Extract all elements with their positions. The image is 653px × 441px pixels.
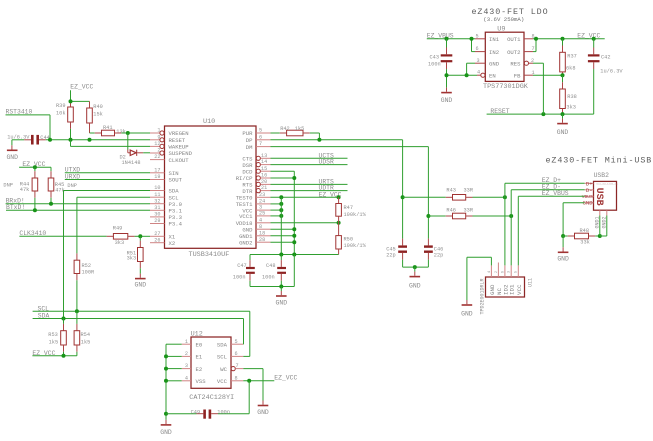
node EZ_VCC pullup label bbox=[32, 350, 77, 358]
ground under C43 bbox=[441, 93, 453, 105]
node UDTR label bbox=[271, 185, 348, 192]
svg-text:FB: FB bbox=[514, 72, 521, 79]
capacitor C48 100n bbox=[262, 255, 286, 287]
svg-text:GND2: GND2 bbox=[239, 239, 252, 246]
svg-text:30: 30 bbox=[154, 212, 160, 218]
ground under R38 bbox=[557, 124, 569, 137]
resistor R47 100k/1% bbox=[336, 197, 367, 223]
node URTS label bbox=[271, 179, 348, 186]
node EZ_VBUS label at USB bbox=[518, 190, 584, 265]
resistor R42 1k5 bbox=[271, 126, 320, 140]
wire DCD to gnd rail bbox=[271, 171, 295, 254]
svg-text:33R: 33R bbox=[464, 188, 474, 194]
resistor R48 33k bbox=[563, 228, 602, 245]
svg-text:100n: 100n bbox=[217, 409, 230, 415]
node SCL label bbox=[33, 305, 250, 313]
svg-text:GND: GND bbox=[557, 256, 569, 263]
svg-text:ID1: ID1 bbox=[509, 284, 516, 295]
resistor R49 3k3 bbox=[113, 226, 150, 247]
svg-text:GND: GND bbox=[441, 97, 453, 104]
svg-text:15: 15 bbox=[261, 166, 267, 172]
svg-text:P3.4: P3.4 bbox=[169, 221, 183, 228]
ground under U12 rail bbox=[160, 425, 172, 436]
node URXD label bbox=[65, 173, 150, 180]
resistor R44 47k DNP bbox=[3, 167, 37, 210]
svg-text:R39: R39 bbox=[56, 103, 66, 109]
wire OUT2 tie bbox=[533, 37, 538, 52]
node EZ_VCC top-left label bbox=[70, 84, 93, 102]
svg-text:IN2: IN2 bbox=[489, 49, 499, 56]
resistor R40 15k bbox=[87, 104, 103, 133]
svg-text:DNP: DNP bbox=[67, 183, 77, 189]
svg-text:SOUT: SOUT bbox=[169, 177, 183, 184]
svg-text:USB2: USB2 bbox=[594, 172, 610, 179]
svg-text:6: 6 bbox=[235, 351, 238, 357]
svg-text:GND: GND bbox=[409, 282, 421, 289]
wire WAKEUP tie to RESET bbox=[71, 140, 151, 147]
svg-text:GND: GND bbox=[276, 300, 288, 307]
svg-text:32: 32 bbox=[154, 198, 160, 204]
svg-text:DM: DM bbox=[246, 144, 253, 151]
svg-text:U9: U9 bbox=[497, 25, 505, 33]
capacitor C45 22p bbox=[386, 245, 407, 267]
IC U12 CAT24C128YI EEPROM bbox=[189, 331, 234, 402]
svg-text:26: 26 bbox=[154, 237, 160, 243]
wire USB shield gnds bbox=[600, 216, 607, 237]
svg-text:VSS: VSS bbox=[196, 378, 207, 385]
svg-text:29: 29 bbox=[154, 218, 160, 224]
svg-text:3k3: 3k3 bbox=[115, 240, 125, 246]
svg-text:6: 6 bbox=[476, 46, 479, 52]
wire C45 C46 bottoms bbox=[403, 265, 429, 276]
svg-text:R53: R53 bbox=[48, 332, 58, 338]
node RESET label bbox=[487, 63, 594, 123]
svg-text:5: 5 bbox=[476, 33, 479, 39]
U9 pins bbox=[475, 33, 535, 79]
svg-text:CAT24C128YI: CAT24C128YI bbox=[189, 394, 234, 402]
svg-text:CLKOUT: CLKOUT bbox=[169, 157, 190, 164]
wire IN2 tie bbox=[470, 37, 476, 52]
svg-text:18: 18 bbox=[259, 230, 265, 236]
IC U10 TUSB3410UF bbox=[165, 118, 257, 259]
svg-text:15k: 15k bbox=[93, 112, 103, 118]
wire DM net to C46 bbox=[271, 147, 431, 246]
svg-text:14: 14 bbox=[261, 159, 267, 165]
capacitor C46 22p bbox=[424, 245, 443, 267]
svg-text:7: 7 bbox=[236, 363, 239, 369]
svg-text:3: 3 bbox=[185, 363, 188, 369]
svg-text:EN: EN bbox=[489, 72, 496, 79]
svg-text:R46: R46 bbox=[446, 208, 456, 214]
svg-text:6k8: 6k8 bbox=[566, 65, 576, 71]
svg-text:SCL: SCL bbox=[217, 354, 227, 361]
svg-text:13: 13 bbox=[261, 153, 267, 159]
wire WC to gnd bbox=[243, 369, 263, 405]
svg-text:16: 16 bbox=[261, 173, 267, 179]
svg-text:19: 19 bbox=[154, 174, 160, 180]
resistor R50 100k/1% bbox=[336, 223, 367, 255]
node UTXD label bbox=[65, 167, 150, 174]
svg-text:C47: C47 bbox=[237, 263, 247, 269]
svg-text:IN1: IN1 bbox=[489, 36, 500, 43]
svg-text:22: 22 bbox=[154, 154, 160, 160]
svg-text:12: 12 bbox=[154, 141, 160, 147]
node BTxD! label bbox=[6, 204, 150, 212]
svg-text:GND: GND bbox=[6, 154, 18, 161]
resistor R53 1k5 bbox=[48, 319, 66, 356]
svg-text:RES: RES bbox=[510, 60, 521, 67]
ground under R48 bbox=[557, 236, 569, 263]
svg-text:R49: R49 bbox=[113, 226, 123, 232]
wire U12 left gnd rail bbox=[164, 344, 182, 424]
svg-text:R52: R52 bbox=[82, 263, 92, 269]
wire GND pins to rail bbox=[271, 227, 297, 244]
ground under C44 bbox=[6, 150, 18, 161]
svg-text:TPD2E001DRLR: TPD2E001DRLR bbox=[480, 278, 486, 314]
svg-text:USB: USB bbox=[593, 188, 604, 206]
connector USB2 bbox=[593, 172, 618, 210]
svg-text:R40: R40 bbox=[93, 104, 103, 110]
node RST3410 label bbox=[6, 109, 51, 140]
svg-text:U11: U11 bbox=[527, 278, 533, 287]
resistor R54 1k5 bbox=[74, 311, 90, 356]
svg-text:100k/1%: 100k/1% bbox=[344, 243, 367, 249]
svg-text:1k5: 1k5 bbox=[81, 339, 91, 345]
svg-text:3: 3 bbox=[477, 58, 480, 64]
svg-text:3k3: 3k3 bbox=[566, 105, 576, 111]
capacitor C49 100n bbox=[166, 409, 249, 418]
svg-text:4: 4 bbox=[259, 217, 262, 223]
resistor R51 3k3 bbox=[127, 236, 144, 277]
svg-text:20: 20 bbox=[261, 179, 267, 185]
wire VDD18 to R47 R50 mid bbox=[271, 221, 341, 225]
IC U11 TPD2E001DRLR ESD protection bbox=[480, 277, 534, 315]
ground under C45 C46 bbox=[409, 277, 421, 290]
node CLK3410 label bbox=[19, 230, 113, 237]
svg-text:1: 1 bbox=[157, 128, 160, 134]
U10 right pin names bbox=[236, 130, 253, 246]
svg-text:6: 6 bbox=[500, 271, 504, 273]
svg-text:R50: R50 bbox=[344, 236, 354, 242]
svg-text:X2: X2 bbox=[169, 240, 176, 247]
svg-text:2: 2 bbox=[157, 148, 160, 154]
ground under R51 bbox=[135, 279, 147, 289]
U12 pins bbox=[182, 339, 244, 385]
IC U9 TPS77301DGK LDO bbox=[483, 25, 529, 91]
wire SCL to U12 pin6 bbox=[243, 311, 250, 356]
svg-text:5: 5 bbox=[514, 271, 518, 273]
svg-text:E1: E1 bbox=[196, 354, 203, 361]
svg-text:13k: 13k bbox=[116, 129, 126, 135]
svg-text:4: 4 bbox=[487, 271, 491, 273]
svg-text:U10: U10 bbox=[203, 118, 215, 126]
svg-text:100R: 100R bbox=[82, 269, 96, 275]
svg-text:1N4148: 1N4148 bbox=[122, 160, 141, 166]
wire U11 GND pin bbox=[467, 257, 492, 304]
svg-text:3: 3 bbox=[507, 271, 511, 273]
node BRxD! label bbox=[6, 198, 150, 206]
svg-text:17: 17 bbox=[154, 167, 160, 173]
svg-text:6: 6 bbox=[259, 134, 262, 140]
svg-text:24: 24 bbox=[259, 199, 265, 205]
svg-text:GND: GND bbox=[257, 409, 269, 416]
capacitor C44 1u/6.3V bbox=[7, 134, 50, 144]
svg-text:EZ_VCC: EZ_VCC bbox=[70, 84, 93, 91]
svg-text:31: 31 bbox=[154, 205, 160, 211]
U10 left pin names bbox=[169, 130, 193, 247]
node EZ_VCC label at U12 bbox=[243, 375, 297, 414]
svg-text:7: 7 bbox=[259, 141, 262, 147]
wire cap bottoms bbox=[250, 255, 294, 296]
svg-text:GND: GND bbox=[557, 129, 569, 136]
svg-text:OUT1: OUT1 bbox=[507, 36, 521, 43]
svg-text:27: 27 bbox=[154, 231, 160, 237]
svg-text:33k: 33k bbox=[580, 239, 590, 245]
svg-text:EZ_VCC: EZ_VCC bbox=[274, 375, 297, 382]
svg-text:100n: 100n bbox=[262, 275, 275, 281]
svg-text:9: 9 bbox=[157, 134, 160, 140]
svg-text:C48: C48 bbox=[266, 263, 276, 269]
svg-text:D-: D- bbox=[586, 187, 593, 194]
svg-text:GND: GND bbox=[135, 282, 147, 289]
node EZ_VCC label at U9 out bbox=[533, 32, 605, 40]
USB2 pins bbox=[582, 180, 608, 228]
resistor R45 47k DNP bbox=[48, 167, 77, 203]
node EZ_D- label bbox=[511, 184, 584, 266]
svg-text:TUSB3410UF: TUSB3410UF bbox=[189, 251, 230, 259]
svg-text:100k/1%: 100k/1% bbox=[344, 212, 367, 218]
capacitor C47 100n bbox=[233, 255, 255, 287]
node EZ_VCC TEST0 label bbox=[271, 191, 342, 199]
wire SDA from pin 10 bbox=[64, 191, 151, 319]
svg-text:100n: 100n bbox=[233, 275, 246, 281]
wire SDA to U12 pin5 bbox=[242, 319, 244, 345]
svg-text:1: 1 bbox=[185, 339, 188, 345]
svg-text:1k5: 1k5 bbox=[49, 340, 59, 346]
svg-text:C49: C49 bbox=[191, 409, 201, 415]
svg-text:GND: GND bbox=[489, 284, 496, 295]
svg-text:47k: 47k bbox=[20, 187, 30, 193]
svg-text:WC: WC bbox=[220, 366, 227, 373]
svg-text:10k: 10k bbox=[56, 111, 66, 117]
svg-text:C42: C42 bbox=[601, 54, 611, 60]
resistor R37 6k8 bbox=[560, 39, 577, 75]
svg-text:25: 25 bbox=[259, 211, 265, 217]
U10 right pins bbox=[256, 128, 271, 243]
ground under U11 bbox=[461, 305, 473, 318]
resistor R39 10k bbox=[56, 103, 73, 140]
resistor R43 33R bbox=[403, 188, 507, 201]
svg-text:E0: E0 bbox=[196, 341, 203, 348]
svg-text:R48: R48 bbox=[580, 228, 590, 234]
svg-text:2: 2 bbox=[494, 271, 498, 273]
svg-text:R37: R37 bbox=[567, 54, 577, 60]
svg-text:1k5: 1k5 bbox=[295, 126, 305, 132]
wire vcc gnd bottom bus bbox=[250, 253, 339, 257]
wire RESET net row bbox=[12, 138, 150, 150]
svg-text:R54: R54 bbox=[81, 332, 91, 338]
wire U9 GND EN tie bbox=[445, 63, 478, 77]
svg-text:1u/6.3V: 1u/6.3V bbox=[600, 68, 623, 74]
svg-text:MINI-USB-32005-201: MINI-USB-32005-201 bbox=[596, 182, 618, 185]
svg-text:SDA: SDA bbox=[217, 341, 228, 348]
svg-text:28: 28 bbox=[259, 237, 265, 243]
svg-text:8: 8 bbox=[235, 375, 238, 381]
capacitor C43 100n bbox=[428, 39, 452, 92]
wire TEST1 VCC VCC1 to rail bbox=[271, 197, 284, 254]
wire DP net to C45 bbox=[271, 138, 405, 246]
svg-text:E2: E2 bbox=[196, 366, 203, 373]
wire RI/CP junction bbox=[271, 176, 297, 180]
svg-text:2: 2 bbox=[185, 351, 188, 357]
svg-text:TPS77301DGK: TPS77301DGK bbox=[483, 83, 529, 91]
svg-text:DNP: DNP bbox=[3, 182, 13, 188]
wire EZ_VCC to R39 R40 tops bbox=[69, 99, 90, 108]
svg-text:11: 11 bbox=[154, 192, 160, 198]
svg-text:23: 23 bbox=[259, 192, 265, 198]
svg-text:8: 8 bbox=[259, 224, 262, 230]
U10 left pins bbox=[150, 128, 165, 244]
capacitor C42 1u/6.3V bbox=[588, 39, 623, 114]
resistor R46 33R bbox=[428, 208, 513, 219]
svg-text:R43: R43 bbox=[446, 188, 456, 194]
wire USB GND to R48 bbox=[561, 203, 585, 238]
svg-text:VCC: VCC bbox=[217, 378, 228, 385]
svg-text:21: 21 bbox=[261, 185, 267, 191]
svg-text:5: 5 bbox=[235, 339, 238, 345]
resistor R52 100R bbox=[74, 260, 95, 311]
svg-text:10: 10 bbox=[154, 185, 160, 191]
svg-text:22p: 22p bbox=[434, 252, 444, 258]
svg-text:R38: R38 bbox=[567, 94, 577, 100]
svg-text:eZ430-FET Mini-USB: eZ430-FET Mini-USB bbox=[546, 156, 653, 166]
svg-text:C43: C43 bbox=[430, 54, 440, 60]
node EZ_VBUS label at U9 bbox=[427, 32, 475, 40]
svg-text:GND: GND bbox=[489, 60, 500, 67]
svg-text:GND: GND bbox=[461, 311, 473, 318]
svg-text:GND: GND bbox=[160, 429, 172, 436]
svg-text:4: 4 bbox=[477, 69, 480, 75]
resistor R41 13k bbox=[90, 125, 151, 136]
svg-text:OUT2: OUT2 bbox=[507, 49, 520, 56]
svg-text:4: 4 bbox=[185, 375, 188, 381]
svg-text:33R: 33R bbox=[464, 208, 474, 214]
node UCTS label bbox=[271, 152, 348, 159]
svg-text:R41: R41 bbox=[103, 125, 113, 131]
svg-text:R42: R42 bbox=[280, 126, 290, 132]
node UDSR label bbox=[271, 159, 348, 166]
U11 pins bbox=[487, 263, 523, 296]
diode D2 1N4148 bbox=[120, 133, 151, 166]
svg-text:U12: U12 bbox=[191, 331, 203, 339]
svg-text:22p: 22p bbox=[386, 252, 396, 258]
resistor R38 3k3 bbox=[560, 75, 577, 114]
ground under WC bbox=[257, 406, 269, 416]
node EZ_D+ label bbox=[505, 177, 585, 265]
wire SCL from pin 11 bbox=[77, 197, 150, 260]
svg-text:5: 5 bbox=[259, 128, 262, 134]
svg-text:3k3: 3k3 bbox=[127, 255, 137, 261]
svg-text:(3.6V 250mA): (3.6V 250mA) bbox=[483, 16, 524, 23]
wire FB node bbox=[533, 73, 565, 77]
node EZ_VCC mid-left label bbox=[19, 161, 51, 169]
svg-text:100n: 100n bbox=[428, 61, 441, 67]
node SDA label bbox=[33, 313, 244, 321]
svg-text:R47: R47 bbox=[344, 205, 354, 211]
ground under C48 bbox=[276, 296, 288, 307]
svg-text:VCC: VCC bbox=[516, 284, 523, 295]
